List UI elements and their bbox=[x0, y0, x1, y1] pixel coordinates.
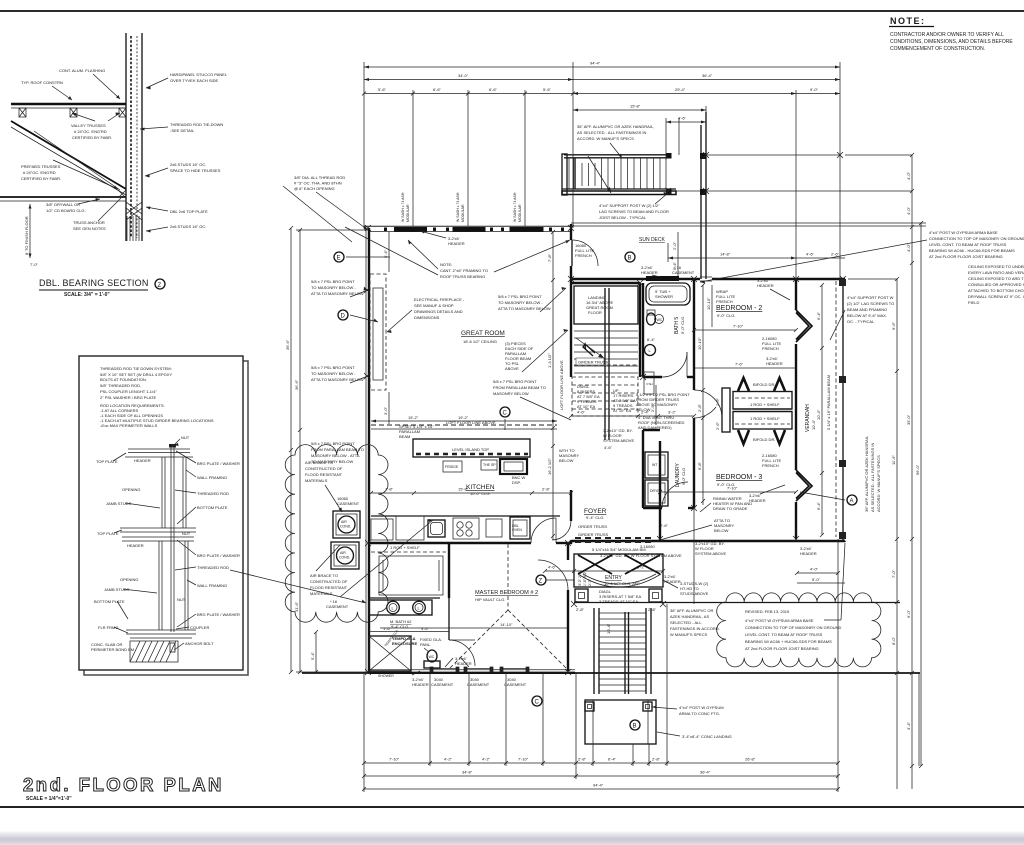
porch stairs verticals bbox=[594, 608, 651, 694]
svg-text:3'-0": 3'-0" bbox=[383, 406, 388, 415]
wic closet builtins bbox=[379, 556, 443, 595]
detail box shadow bbox=[84, 361, 248, 675]
dim row bed3 bbox=[660, 491, 796, 493]
loft line dashed bbox=[371, 424, 557, 426]
bifold door carets down bbox=[738, 430, 749, 444]
svg-text:LEVEL CONT. TO BEAM AT ROOF TR: LEVEL CONT. TO BEAM AT ROOF TRUSS bbox=[745, 632, 823, 637]
detail box frame bbox=[79, 356, 243, 670]
svg-text:TO MASONRY BELOW: TO MASONRY BELOW bbox=[311, 459, 353, 464]
dim 4-6 2-6 sundeck bbox=[796, 257, 845, 259]
svg-text:5/8" THREADED ROD.: 5/8" THREADED ROD. bbox=[100, 383, 141, 388]
spec text block bbox=[100, 366, 214, 428]
west exterior wall bbox=[368, 228, 370, 672]
closet mid wall bbox=[733, 408, 792, 410]
ceiling line bbox=[0, 196, 126, 198]
svg-text:OVER TYVEK EACH SIDE: OVER TYVEK EACH SIDE bbox=[170, 78, 218, 83]
svg-text:CASEMENT: CASEMENT bbox=[504, 682, 527, 687]
svg-text:2'-6": 2'-6" bbox=[660, 523, 669, 528]
entry fan arcs bbox=[578, 574, 618, 587]
svg-text:CERTIFIED BY FABR.: CERTIFIED BY FABR. bbox=[72, 135, 112, 140]
svg-text:NUT: NUT bbox=[182, 531, 191, 536]
svg-text:2nd. FLOOR PLAN: 2nd. FLOOR PLAN bbox=[23, 774, 224, 795]
left wall vert dims interior bbox=[388, 232, 390, 272]
svg-text:SYSTEM ABOVE: SYSTEM ABOVE bbox=[603, 438, 634, 443]
svg-text:BRG PLATE / WASHER: BRG PLATE / WASHER bbox=[197, 553, 240, 558]
svg-text:NUT: NUT bbox=[181, 435, 190, 440]
svg-text:PREFAB'D TRUSSES: PREFAB'D TRUSSES bbox=[21, 164, 61, 169]
svg-text:OPENING: OPENING bbox=[120, 577, 138, 582]
truss web diagonal bbox=[34, 131, 120, 190]
svg-text:PERIMETER BOND BM: PERIMETER BOND BM bbox=[91, 647, 134, 652]
svg-text:-6'oc MAX PERIMETER WALLS: -6'oc MAX PERIMETER WALLS bbox=[100, 423, 158, 428]
svg-text:3'-4": 3'-4" bbox=[906, 721, 911, 730]
svg-text:NUT: NUT bbox=[177, 597, 186, 602]
dim row hall bbox=[571, 415, 694, 417]
svg-text:36'-4": 36'-4" bbox=[702, 73, 713, 78]
svg-text:D: D bbox=[341, 314, 346, 320]
right vertical dim b bbox=[911, 155, 913, 789]
svg-text:MODULAR: MODULAR bbox=[406, 204, 410, 222]
svg-text:HEADER: HEADER bbox=[448, 241, 465, 246]
svg-text:THE SP: THE SP bbox=[483, 463, 496, 467]
svg-text:GIRDER TRUSS: GIRDER TRUSS bbox=[578, 532, 608, 537]
svg-text:PANL.: PANL. bbox=[420, 642, 431, 647]
svg-text:HEADER: HEADER bbox=[800, 551, 817, 556]
svg-text:3'-4"x8'-4" CONC LANDING: 3'-4"x8'-4" CONC LANDING bbox=[682, 734, 732, 739]
svg-text:2'-8": 2'-8" bbox=[576, 607, 585, 612]
svg-text:2x6 STUDS 16" OC.: 2x6 STUDS 16" OC. bbox=[170, 224, 206, 229]
svg-text:2'-8": 2'-8" bbox=[542, 487, 551, 492]
svg-text:15'-8": 15'-8" bbox=[458, 487, 469, 492]
svg-text:BELOW AT 9'-6" MAX.: BELOW AT 9'-6" MAX. bbox=[847, 313, 887, 318]
svg-text:WC: WC bbox=[429, 655, 435, 659]
bath5 west wall bbox=[642, 283, 644, 377]
svg-text:NOTE:: NOTE: bbox=[890, 16, 926, 26]
kitchen island bbox=[413, 439, 530, 457]
bed2 door arcs bbox=[694, 390, 722, 418]
porch long wall bbox=[574, 602, 900, 604]
svg-text:1'-8" 3'-2": 1'-8" 3'-2" bbox=[583, 570, 587, 586]
girder truss dashed at stair bbox=[574, 364, 638, 366]
svg-text:ANCHOR BOLT: ANCHOR BOLT bbox=[185, 641, 214, 646]
svg-text:FRENCH: FRENCH bbox=[575, 253, 592, 258]
girder truss label bbox=[576, 358, 604, 365]
svg-text:5/8 x 7 PSL BRG POINT: 5/8 x 7 PSL BRG POINT bbox=[498, 294, 542, 299]
dim 29-4 bbox=[573, 93, 796, 95]
south exterior wall master suite bbox=[368, 672, 575, 674]
svg-text:DIMENSIONS: DIMENSIONS bbox=[414, 315, 440, 320]
dishwasher bbox=[486, 519, 502, 537]
svg-text:5 1/4"x16 3/4" MODULAM BM.: 5 1/4"x16 3/4" MODULAM BM. bbox=[592, 547, 647, 552]
window header bar 2 bbox=[453, 227, 486, 232]
foyer door arc bbox=[552, 521, 571, 540]
svg-text:9'-4" CLG.: 9'-4" CLG. bbox=[586, 515, 604, 520]
svg-text:BELOW: BELOW bbox=[714, 528, 729, 533]
ref circle E bbox=[334, 252, 344, 262]
window header bar 3 bbox=[510, 227, 544, 232]
svg-text:AIR: AIR bbox=[340, 551, 346, 555]
svg-text:W MANUF'S SPECS: W MANUF'S SPECS bbox=[670, 632, 708, 637]
mbath lav1 bbox=[387, 601, 400, 614]
balcony diagonal bbox=[588, 156, 611, 193]
svg-text:FRENCH: FRENCH bbox=[762, 346, 779, 351]
svg-text:W SASH x 74 ASH: W SASH x 74 ASH bbox=[513, 192, 517, 222]
svg-text:34'-0": 34'-0" bbox=[458, 73, 469, 78]
svg-text:ROOF TRUSS BEARING: ROOF TRUSS BEARING bbox=[440, 274, 485, 279]
ref circle A verandah bbox=[847, 495, 857, 505]
laundry walls bbox=[642, 430, 644, 508]
svg-text:BEARING W/ AC66 + HUC66-SDS FO: BEARING W/ AC66 + HUC66-SDS FOR BEAMS bbox=[745, 639, 832, 644]
tub window dark bbox=[646, 276, 679, 281]
svg-text:ATTA TO MASONRY BELOW: ATTA TO MASONRY BELOW bbox=[498, 306, 551, 311]
svg-text:LOFT FLOOR LINE ABOVE: LOFT FLOOR LINE ABOVE bbox=[559, 360, 564, 410]
entry x brace 1 bbox=[578, 555, 612, 574]
wall stud dots bbox=[384, 228, 564, 232]
svg-text:# "3" OC. THA. AND 8THN: # "3" OC. THA. AND 8THN bbox=[294, 181, 342, 186]
svg-text:MODULAR: MODULAR bbox=[461, 204, 465, 222]
svg-text:36'-6": 36'-6" bbox=[294, 379, 299, 390]
svg-text:ABOVE: ABOVE bbox=[505, 366, 519, 371]
ac unit 1 bbox=[333, 511, 360, 538]
cooktop box dark bbox=[500, 459, 527, 474]
bath5 door arc bbox=[662, 352, 687, 377]
svg-text:FLOOD RESISTANT: FLOOD RESISTANT bbox=[305, 472, 343, 477]
bed2 west wall bbox=[693, 279, 695, 390]
svg-text:FRIDGE: FRIDGE bbox=[445, 465, 459, 469]
svg-text:5'-4": 5'-4" bbox=[310, 651, 315, 660]
svg-text:7'-6": 7'-6" bbox=[735, 362, 744, 367]
kitchen sink bbox=[428, 520, 445, 537]
svg-text:DRAIN TO GRADE: DRAIN TO GRADE bbox=[713, 506, 748, 511]
closet lower box bbox=[733, 412, 792, 430]
cooktop burners bbox=[453, 518, 479, 539]
threaded rod upper bbox=[170, 447, 172, 632]
dim 34-0 bbox=[364, 79, 573, 81]
svg-text:CONNECTION TO TOP OF MASONRY O: CONNECTION TO TOP OF MASONRY ON GROUND bbox=[745, 625, 841, 630]
svg-text:CONSULIED OR APPROVED SOFFIT: CONSULIED OR APPROVED SOFFIT bbox=[968, 282, 1024, 287]
svg-text:3 TREADS-AT 10" EA: 3 TREADS-AT 10" EA bbox=[599, 599, 638, 604]
svg-text:GIRDER TRUSS: GIRDER TRUSS bbox=[578, 360, 608, 365]
svg-text:ACCORD. W MANUF'S SPECS: ACCORD. W MANUF'S SPECS bbox=[876, 455, 881, 512]
bed3 south wall bbox=[571, 540, 845, 542]
svg-text:SEE MANUF & SHOP: SEE MANUF & SHOP bbox=[414, 303, 454, 308]
svg-text:BIFOLD DR.: BIFOLD DR. bbox=[753, 437, 775, 442]
leader from detail to plan wall bbox=[230, 570, 366, 603]
svg-text:7'-10": 7'-10" bbox=[518, 757, 529, 762]
svg-text:29'-4": 29'-4" bbox=[675, 87, 686, 92]
svg-text:FIELD: FIELD bbox=[968, 300, 979, 305]
svg-text:7'-0": 7'-0" bbox=[891, 569, 896, 578]
left cloud leaders bbox=[325, 485, 342, 512]
bottom plate bbox=[126, 630, 196, 638]
svg-text:36" AFF. ALUM/PVC OR: 36" AFF. ALUM/PVC OR bbox=[670, 608, 714, 613]
svg-text:(2) 1/2" LAG SCREWS TO: (2) 1/2" LAG SCREWS TO bbox=[847, 301, 894, 306]
svg-text:3-16080: 3-16080 bbox=[640, 544, 655, 549]
porch stair treads bbox=[599, 613, 646, 691]
svg-text:@ 6" EACH OPENING: @ 6" EACH OPENING bbox=[294, 186, 335, 191]
svg-text:11'-6": 11'-6" bbox=[891, 455, 896, 465]
svg-text:4"x4" SUPPORT POST W: 4"x4" SUPPORT POST W bbox=[847, 295, 894, 300]
right vertical dim a bbox=[896, 279, 898, 789]
svg-text:AT 2nd FLOOR FLOOR JOIST BEARI: AT 2nd FLOOR FLOOR JOIST BEARING bbox=[745, 646, 819, 651]
fridge box bbox=[443, 461, 462, 472]
svg-text:FLOOD RESISTANT: FLOOD RESISTANT bbox=[310, 585, 348, 590]
svg-text:DBL 2x6 TOP PLATE: DBL 2x6 TOP PLATE bbox=[170, 209, 208, 214]
svg-text:MASONRY BELOW: MASONRY BELOW bbox=[493, 391, 529, 396]
dim row bed2b bbox=[694, 367, 796, 369]
svg-text:AS SELECTED - ALL FASTENINGS I: AS SELECTED - ALL FASTENINGS IN bbox=[870, 442, 875, 512]
bifold door carets up bbox=[738, 378, 749, 391]
shower enclosure bbox=[369, 636, 411, 671]
dim 4-6 bbox=[666, 121, 706, 123]
wc circle label bbox=[655, 315, 664, 324]
sun deck wall window2 bbox=[700, 277, 712, 281]
svg-text:4'-0": 4'-0" bbox=[906, 243, 911, 252]
master dim bbox=[380, 627, 567, 629]
svg-text:AZEK HANDRAIL, AS: AZEK HANDRAIL, AS bbox=[670, 614, 709, 619]
verandah outer edge bbox=[842, 279, 844, 539]
svg-text:3/8" DIA. ALL THREAD ROD: 3/8" DIA. ALL THREAD ROD bbox=[294, 175, 345, 180]
svg-text:SCALE = 1/4"=1'-0": SCALE = 1/4"=1'-0" bbox=[26, 796, 72, 802]
svg-text:MASTER BEDROOM # 2: MASTER BEDROOM # 2 bbox=[475, 590, 538, 596]
svg-text:19'-2": 19'-2" bbox=[458, 415, 469, 420]
svg-text:NOTE:: NOTE: bbox=[440, 262, 452, 267]
kitchen-master dividing wall bbox=[368, 542, 531, 544]
dim row bed2 bbox=[694, 329, 796, 331]
svg-text:BIFOLD DR.: BIFOLD DR. bbox=[753, 382, 775, 387]
svg-text:4'-6": 4'-6" bbox=[577, 410, 586, 415]
svg-text:TO MASONRY BELOW -: TO MASONRY BELOW - bbox=[498, 300, 543, 305]
svg-text:MASONRY BELOW - ATTA: MASONRY BELOW - ATTA bbox=[311, 453, 360, 458]
bath5 tub bbox=[646, 283, 690, 305]
svg-text:2'-0": 2'-0" bbox=[588, 578, 592, 586]
svg-text:VALLEY TRUSSES: VALLEY TRUSSES bbox=[71, 123, 106, 128]
north wall base lines bbox=[364, 225, 571, 227]
svg-text:# 24"OC. ENG'RD: # 24"OC. ENG'RD bbox=[74, 129, 107, 134]
balcony left post bbox=[562, 154, 567, 195]
svg-text:5'-6": 5'-6" bbox=[378, 87, 387, 92]
porch baseline bbox=[302, 672, 920, 674]
truss clip 1 bbox=[19, 108, 26, 117]
svg-text:3 SH: 3 SH bbox=[646, 382, 653, 386]
ref circle C bottom bbox=[532, 696, 542, 706]
svg-text:7'-8": 7'-8" bbox=[547, 253, 552, 262]
svg-text:THREADED ROD: THREADED ROD bbox=[197, 565, 229, 570]
upper jamb studs bbox=[162, 457, 186, 528]
svg-text:2x6 STUDS 16" OC.: 2x6 STUDS 16" OC. bbox=[170, 162, 206, 167]
dbl oven bbox=[510, 517, 530, 539]
svg-text:6'-4": 6'-4" bbox=[816, 311, 821, 320]
svg-text:1'-3 1/2": 1'-3 1/2" bbox=[547, 353, 552, 368]
svg-text:SYSTEM ABOVE: SYSTEM ABOVE bbox=[695, 551, 726, 556]
svg-text:FOYER: FOYER bbox=[584, 508, 607, 515]
svg-text:CONDITIONS, DIMENSIONS, AND DE: CONDITIONS, DIMENSIONS, AND DETAILS BEFO… bbox=[890, 39, 1013, 45]
svg-text:AT 10" EA: AT 10" EA bbox=[613, 408, 632, 413]
svg-text:10'-0" CLG.: 10'-0" CLG. bbox=[470, 491, 491, 496]
bedrooms east wall bbox=[795, 279, 797, 310]
master east wall bbox=[567, 544, 569, 560]
roof line bbox=[11, 103, 126, 105]
cloud leader to post bbox=[824, 619, 841, 621]
mbath lav2 bbox=[413, 601, 426, 614]
svg-text:4'-0": 4'-0" bbox=[906, 206, 911, 215]
svg-text:CASEMENT: CASEMENT bbox=[337, 501, 360, 506]
svg-text:FLOOR: FLOOR bbox=[588, 310, 602, 315]
deck post column bbox=[700, 125, 702, 279]
closet upper box bbox=[733, 392, 792, 410]
svg-text:CASEMENT: CASEMENT bbox=[326, 604, 349, 609]
svg-text:CONSTRUCTED OF: CONSTRUCTED OF bbox=[305, 466, 343, 471]
top sheet border line bbox=[0, 10, 1024, 12]
svg-text:HARDIPANEL STUCCO PANEL: HARDIPANEL STUCCO PANEL bbox=[170, 72, 228, 77]
laundry appliances bbox=[645, 452, 668, 478]
svg-text:TOP PLATE: TOP PLATE bbox=[97, 531, 119, 536]
svg-text:FRENCH: FRENCH bbox=[762, 463, 779, 468]
svg-text:WC: WC bbox=[657, 318, 663, 322]
svg-text:HEADER: HEADER bbox=[455, 661, 472, 666]
svg-text:BOTTOM PLATE: BOTTOM PLATE bbox=[94, 599, 125, 604]
svg-text:10'-10": 10'-10" bbox=[697, 337, 702, 350]
junction ticks bbox=[365, 225, 846, 675]
svg-text:LEVEL ISLAND TOP: LEVEL ISLAND TOP bbox=[452, 447, 489, 452]
svg-text:6'-4": 6'-4" bbox=[647, 337, 656, 342]
main stair treads bbox=[574, 324, 638, 373]
svg-text:AT 2nd FLOOR FLOOR JOIST BEARI: AT 2nd FLOOR FLOOR JOIST BEARING bbox=[929, 254, 1003, 259]
svg-text:1/2" CD BOARD CLG.: 1/2" CD BOARD CLG. bbox=[46, 208, 86, 213]
laundry door arc bbox=[662, 482, 688, 508]
svg-text:HEADER: HEADER bbox=[641, 270, 658, 275]
svg-text:CONSTRUCTED OF: CONSTRUCTED OF bbox=[310, 579, 348, 584]
exterior stair balusters bbox=[569, 158, 666, 189]
svg-text:2'-8": 2'-8" bbox=[652, 757, 661, 762]
svg-text:7'-10": 7'-10" bbox=[733, 324, 744, 329]
stud wall section verticals bbox=[125, 33, 127, 241]
wic rods bbox=[382, 560, 384, 591]
svg-text:6'-6": 6'-6" bbox=[433, 87, 442, 92]
island dash hatch bbox=[416, 453, 528, 456]
long leader left cloud to kitchen bbox=[340, 520, 433, 597]
revision cloud left bbox=[285, 445, 388, 623]
svg-text:FRENCH: FRENCH bbox=[716, 299, 733, 304]
svg-text:4'-0": 4'-0" bbox=[906, 171, 911, 180]
top extension lines bbox=[364, 62, 840, 279]
svg-text:BRG PLATE / WASHER: BRG PLATE / WASHER bbox=[197, 461, 240, 466]
svg-text:14'-8": 14'-8" bbox=[720, 252, 731, 257]
svg-text:COND.: COND. bbox=[339, 556, 350, 560]
vert dim x648 hall bbox=[655, 385, 657, 425]
svg-text:BRG PLATE / WASHER: BRG PLATE / WASHER bbox=[197, 612, 240, 617]
svg-text:36'-4": 36'-4" bbox=[700, 770, 711, 775]
bottom dim row2 bbox=[364, 775, 838, 777]
svg-text:3'-0" 2'-1": 3'-0" 2'-1" bbox=[578, 570, 582, 586]
svg-text:HEADER: HEADER bbox=[412, 682, 429, 687]
svg-text:LEVEL CONT. TO BEAM AT ROOF TR: LEVEL CONT. TO BEAM AT ROOF TRUSS bbox=[929, 242, 1007, 247]
dim 36-4 bbox=[573, 79, 840, 81]
svg-text:9'-6": 9'-6" bbox=[891, 321, 896, 330]
dim 15-8 bbox=[573, 109, 706, 111]
svg-text:BELOW: BELOW bbox=[559, 458, 574, 463]
svg-text:2'-0": 2'-0" bbox=[672, 241, 677, 250]
bottom dim row3 bbox=[364, 788, 838, 790]
svg-text:3-2'x10" GD. BY. W FLOOR SYSTE: 3-2'x10" GD. BY. W FLOOR SYSTEM ABOVE bbox=[600, 553, 682, 558]
landing top wall bbox=[571, 282, 640, 284]
bottom dim row1 bbox=[364, 762, 838, 764]
svg-text:ACCORD. W MANUF'S SPECS: ACCORD. W MANUF'S SPECS bbox=[577, 136, 634, 141]
svg-text:MODULAR: MODULAR bbox=[518, 204, 522, 222]
svg-text:2'-6": 2'-6" bbox=[831, 252, 840, 257]
svg-text:1'-6": 1'-6" bbox=[383, 626, 392, 631]
svg-text:ARMA TO CONC FTG.: ARMA TO CONC FTG. bbox=[679, 711, 720, 716]
svg-text:4'-2": 4'-2" bbox=[482, 757, 491, 762]
svg-text:4'-6": 4'-6" bbox=[806, 252, 815, 257]
svg-text:9'-0" CLG.: 9'-0" CLG. bbox=[680, 316, 685, 334]
master door arc bbox=[538, 560, 568, 590]
svg-text:6'-6": 6'-6" bbox=[489, 87, 498, 92]
svg-text:HEADER: HEADER bbox=[664, 579, 681, 584]
svg-text:10'-6 1/2" CLG. AFF.: 10'-6 1/2" CLG. AFF. bbox=[604, 581, 640, 586]
bath5 wc bbox=[647, 313, 656, 325]
svg-text:HEADER: HEADER bbox=[757, 283, 774, 288]
svg-text:2'-6": 2'-6" bbox=[715, 421, 720, 430]
svg-text:CASEMENT: CASEMENT bbox=[467, 682, 490, 687]
svg-text:-SEE DETAIL: -SEE DETAIL bbox=[170, 128, 195, 133]
bed3 west wall bbox=[659, 441, 661, 541]
svg-text:TRUSS ANCHOR: TRUSS ANCHOR bbox=[73, 220, 105, 225]
svg-text:SPACE TO HIDE TRUSSES: SPACE TO HIDE TRUSSES bbox=[170, 168, 221, 173]
svg-text:Z: Z bbox=[539, 579, 543, 585]
stair break mark bbox=[583, 344, 595, 356]
svg-text:5'-2": 5'-2" bbox=[637, 565, 646, 570]
svg-text:TYP. ROOF CONSTRN: TYP. ROOF CONSTRN bbox=[21, 80, 63, 85]
svg-text:5/8 x 7 PSL BRG POINT: 5/8 x 7 PSL BRG POINT bbox=[493, 379, 537, 384]
svg-text:# 24"OC. ENG'RD: # 24"OC. ENG'RD bbox=[23, 170, 56, 175]
dim 94-4 top bbox=[364, 66, 840, 68]
foyer girder truss dashed bbox=[575, 537, 651, 539]
svg-text:AND DAMPERED): AND DAMPERED) bbox=[638, 425, 672, 430]
svg-text:MATERIALS: MATERIALS bbox=[305, 478, 328, 483]
svg-text:2'-6": 2'-6" bbox=[715, 397, 720, 406]
mid plates bbox=[120, 528, 196, 541]
svg-text:HIP VAULT CLG.: HIP VAULT CLG. bbox=[475, 597, 505, 602]
svg-text:DRAWINGS DETAILS AND: DRAWINGS DETAILS AND bbox=[414, 309, 463, 314]
svg-text:8' TO FINISH FLOOR: 8' TO FINISH FLOOR bbox=[24, 216, 29, 255]
svg-text:3/8" DRYWALL OR: 3/8" DRYWALL OR bbox=[46, 202, 80, 207]
counter west cabs bbox=[371, 519, 393, 540]
svg-text:AIR: AIR bbox=[341, 520, 347, 524]
bottom extension lines bbox=[364, 508, 919, 792]
lower jamb studs bbox=[159, 541, 188, 630]
entry x brace 2 bbox=[625, 555, 660, 574]
spice box bbox=[481, 460, 497, 470]
svg-text:TO MASONRY BELOW -: TO MASONRY BELOW - bbox=[311, 371, 356, 376]
exterior stair bottom rail bbox=[562, 188, 676, 190]
svg-text:CANT. 2"x6" FRAMING TO: CANT. 2"x6" FRAMING TO bbox=[440, 268, 488, 273]
svg-text:5/8 x 7 PSL BRG POINT: 5/8 x 7 PSL BRG POINT bbox=[311, 441, 355, 446]
vert dim verandah bbox=[821, 285, 823, 535]
svg-text:15'-2": 15'-2" bbox=[408, 415, 419, 420]
stair up arrow bbox=[576, 338, 604, 358]
closet-mbath divider bbox=[368, 597, 440, 599]
ref circle D bbox=[338, 310, 348, 320]
deck post squares bbox=[666, 153, 672, 159]
svg-text:ATTA TO MASONRY BELOW: ATTA TO MASONRY BELOW bbox=[311, 377, 364, 382]
svg-text:5'-0": 5'-0" bbox=[812, 577, 821, 582]
svg-text:FROM PARALLAM BEAM TO: FROM PARALLAM BEAM TO bbox=[311, 447, 364, 452]
svg-text:WALL FRAMING: WALL FRAMING bbox=[197, 475, 227, 480]
svg-text:1 ROD + SHELF: 1 ROD + SHELF bbox=[390, 545, 420, 550]
svg-text:4'-6": 4'-6" bbox=[548, 565, 557, 570]
bed3 french door zigzag bbox=[796, 470, 812, 501]
